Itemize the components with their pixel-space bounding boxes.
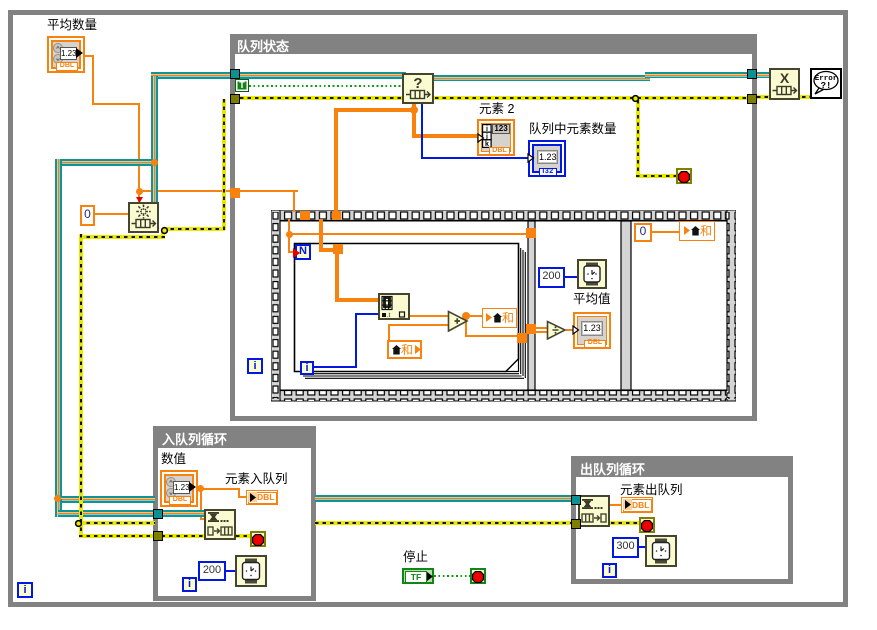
svg-text:?!: ?! <box>821 81 832 91</box>
svg-text:.t: .t <box>387 313 391 318</box>
svg-text:i: i <box>486 126 488 133</box>
svg-text:j: j <box>485 134 488 141</box>
svg-text:X: X <box>780 70 790 86</box>
